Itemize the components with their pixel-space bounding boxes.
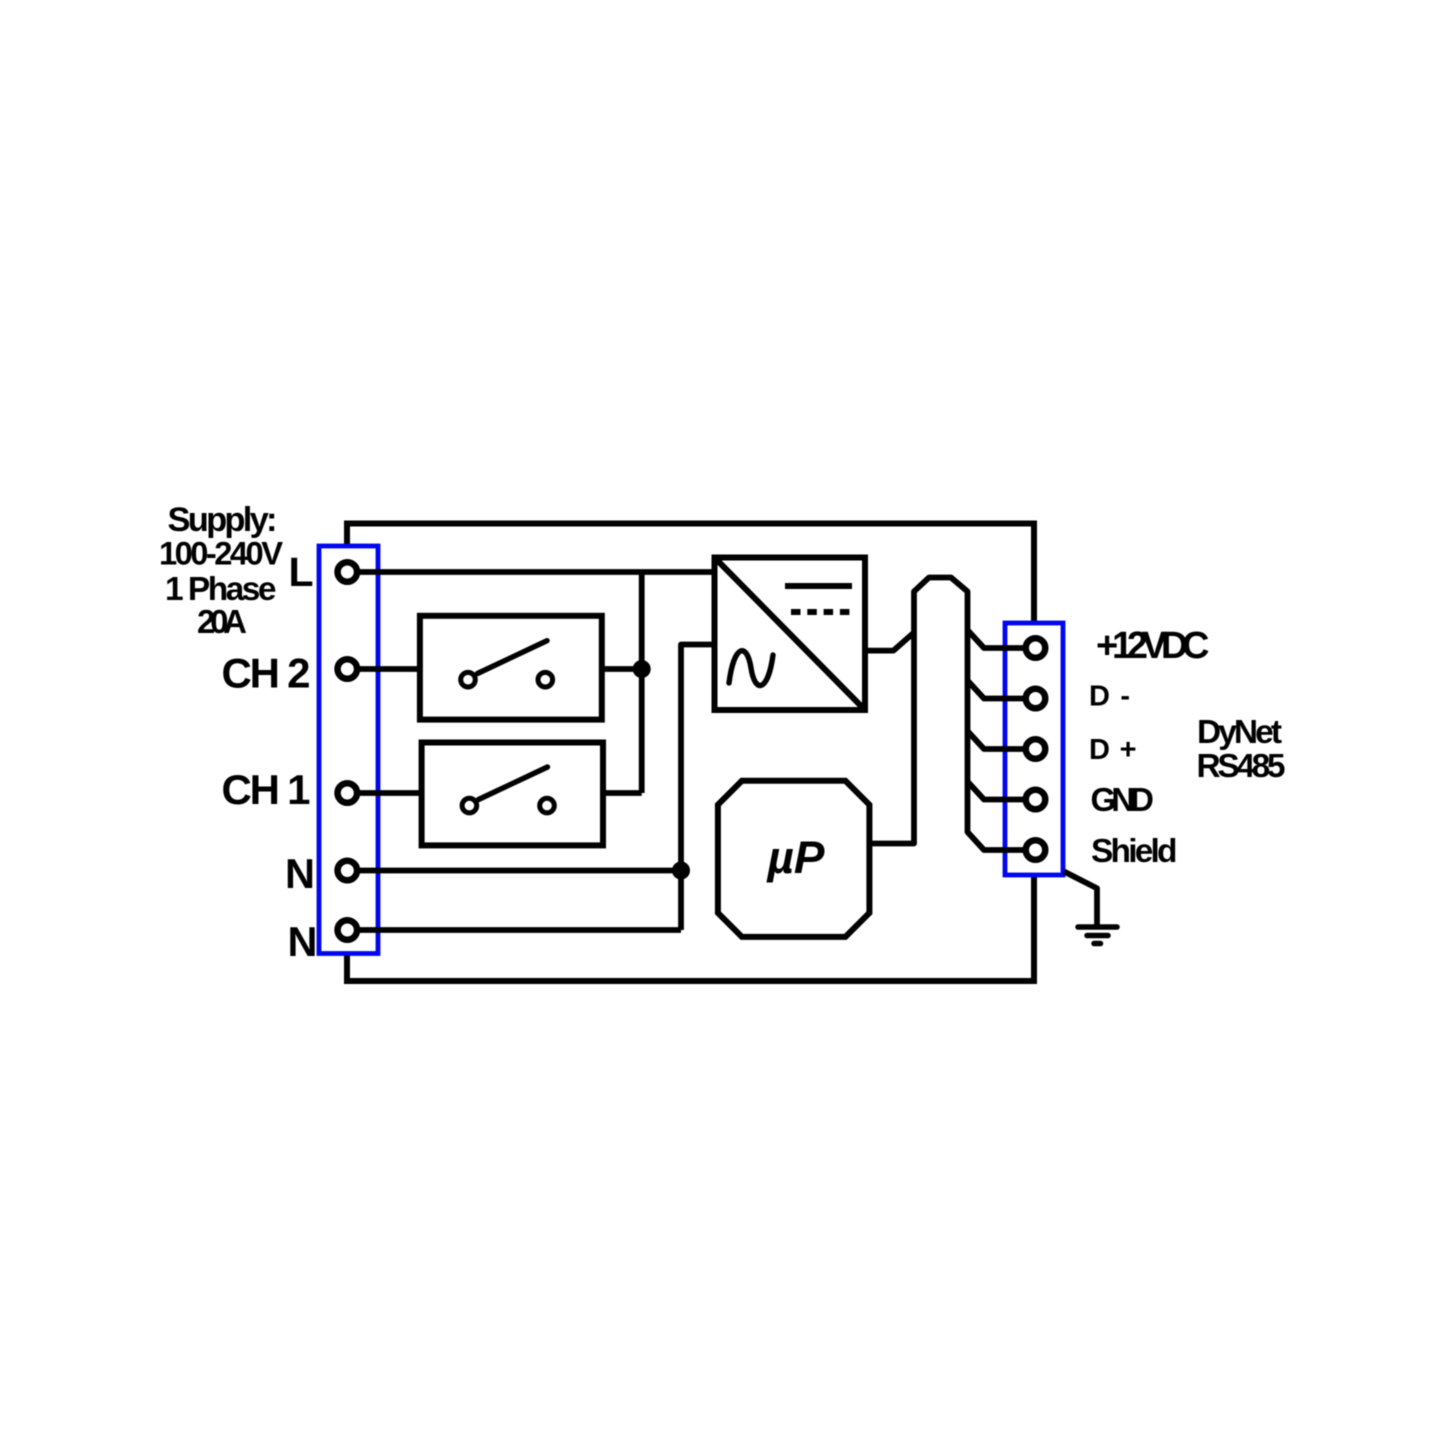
svg-text:D -: D - [1089,681,1130,713]
svg-text:µP: µP [765,832,825,883]
svg-text:+12VDC: +12VDC [1096,625,1210,667]
svg-text:D +: D + [1089,734,1137,766]
svg-text:Shield: Shield [1091,833,1178,870]
svg-text:20A: 20A [197,603,247,640]
svg-text:N: N [288,918,318,965]
svg-text:L: L [289,549,314,595]
svg-text:GND: GND [1091,781,1155,818]
svg-text:Supply:: Supply: [168,501,278,539]
svg-text:RS485: RS485 [1197,748,1286,785]
svg-text:N: N [285,850,315,897]
svg-text:CH 2: CH 2 [222,650,311,697]
svg-text:CH 1: CH 1 [222,766,311,813]
svg-text:100-240V: 100-240V [159,535,283,572]
svg-text:DyNet: DyNet [1197,714,1282,751]
